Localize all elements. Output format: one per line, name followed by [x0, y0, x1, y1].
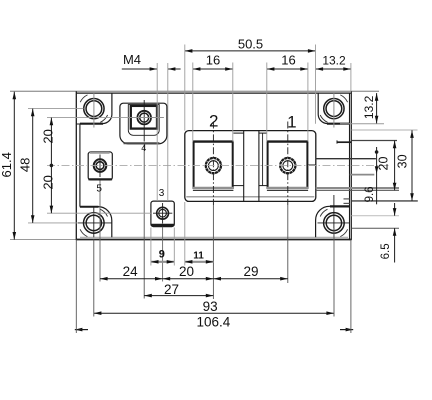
corner pocket bottom-right [316, 206, 350, 237]
svg-text:M4: M4 [123, 52, 141, 67]
dimension 11 [185, 202, 214, 266]
dimension 16 right [267, 53, 308, 71]
dimension 30 right [396, 130, 414, 201]
dimension M4 callout [122, 52, 181, 201]
terminal 2 plateau [193, 142, 234, 191]
dimension 9.6 right [364, 147, 378, 204]
extension line pocket top right [351, 129, 417, 131]
terminal 3 block [151, 201, 174, 227]
terminal 4 label [141, 143, 146, 299]
extension line plateau top right [351, 140, 397, 142]
terminal 4 screw [129, 100, 164, 142]
module outline bottom edge [10, 237, 351, 239]
extension line 6.5 top [351, 215, 399, 217]
extension line 6.5 bottom [351, 227, 399, 229]
svg-text:16: 16 [281, 53, 295, 68]
svg-text:20: 20 [179, 264, 194, 279]
dimension 27 [144, 282, 213, 298]
terminal 1 centerline and label [287, 112, 296, 283]
svg-text:9: 9 [159, 248, 165, 260]
svg-text:2: 2 [209, 111, 218, 130]
extension line 9.6 top [350, 174, 375, 176]
svg-text:13.2: 13.2 [362, 95, 376, 119]
main pocket outline [185, 131, 316, 202]
svg-text:93: 93 [203, 299, 218, 314]
svg-text:106.4: 106.4 [197, 315, 231, 330]
horizontal centerline [47, 164, 390, 166]
extension line 13.2 bottom [340, 123, 384, 125]
svg-text:24: 24 [123, 264, 139, 279]
extension line hole top row [28, 108, 84, 110]
svg-text:13.2: 13.2 [322, 54, 346, 68]
svg-text:9.6: 9.6 [364, 186, 376, 202]
dimension 20 right [377, 141, 397, 191]
right edge rib [337, 140, 351, 203]
module outline left edge [76, 91, 80, 240]
dimension 20 bottom [163, 264, 214, 280]
slot right of terminal 1 [308, 164, 315, 166]
terminal 5 label [96, 181, 102, 282]
svg-text:11: 11 [193, 251, 204, 262]
svg-text:4: 4 [141, 143, 146, 153]
dimension 50.5 [185, 37, 316, 53]
dimension 13.2 top [316, 54, 351, 71]
extension lines bottom dims [76, 228, 351, 333]
extension line terminal3 row [47, 212, 152, 214]
svg-text:29: 29 [243, 264, 258, 279]
extension line terminal4 row [47, 117, 164, 119]
terminal 4 pocket bottom bar [124, 142, 160, 144]
svg-text:48: 48 [18, 158, 33, 172]
svg-text:20: 20 [377, 157, 391, 171]
dimension 20 lower-left [40, 165, 55, 213]
svg-text:30: 30 [396, 154, 410, 168]
svg-text:1: 1 [287, 112, 296, 131]
svg-text:61.4: 61.4 [0, 152, 14, 177]
svg-text:6.5: 6.5 [380, 243, 392, 259]
terminal bridge [233, 131, 267, 202]
svg-text:20: 20 [40, 129, 55, 143]
terminal 5 block [88, 152, 112, 180]
svg-text:27: 27 [164, 282, 179, 297]
dimension 93 [94, 299, 334, 315]
mounting hole top-right [320, 93, 347, 127]
dimension 9 [151, 228, 174, 266]
dimension 6.5 right [380, 203, 396, 263]
dimension 106.4 [75, 315, 353, 332]
dimension 13.2 right [362, 93, 379, 123]
extension lines top dims [185, 45, 351, 142]
dimension 61.4 [0, 92, 16, 240]
extension line hole bottom row [28, 222, 77, 224]
dimension 48 [18, 109, 35, 223]
dimension 29 [213, 264, 287, 280]
terminal 4 pocket [120, 103, 167, 144]
corner pocket top-right [318, 93, 349, 124]
terminal 4 contact square [131, 106, 157, 129]
terminal 1 screw [280, 158, 295, 173]
extension line pocket bottom right [351, 200, 417, 202]
svg-text:16: 16 [206, 53, 220, 68]
dimension 24 [100, 264, 163, 280]
svg-text:50.5: 50.5 [238, 37, 263, 52]
corner pocket bottom-left [80, 207, 112, 238]
corner pocket top-left [80, 93, 112, 124]
terminal 3 screw [153, 203, 172, 224]
terminal 5 screw [94, 155, 107, 178]
svg-text:3: 3 [159, 188, 165, 199]
terminal 2 centerline and label [209, 111, 218, 299]
svg-text:5: 5 [96, 184, 102, 195]
internal edge line right side [316, 158, 376, 160]
dimension 20 upper-left [40, 118, 55, 168]
extension line plateau bottom right [316, 188, 399, 190]
mounting hole top-left [80, 93, 107, 127]
terminal 3 label [159, 188, 165, 282]
module outline top edge [10, 91, 379, 93]
terminal 1 plateau [267, 142, 308, 191]
mounting hole bottom-right [318, 195, 350, 237]
dimension 16 left [193, 53, 233, 71]
mounting hole bottom-left [78, 207, 112, 238]
terminal 2 screw [206, 158, 221, 173]
svg-text:20: 20 [40, 175, 55, 189]
module outline right edge [350, 91, 352, 240]
